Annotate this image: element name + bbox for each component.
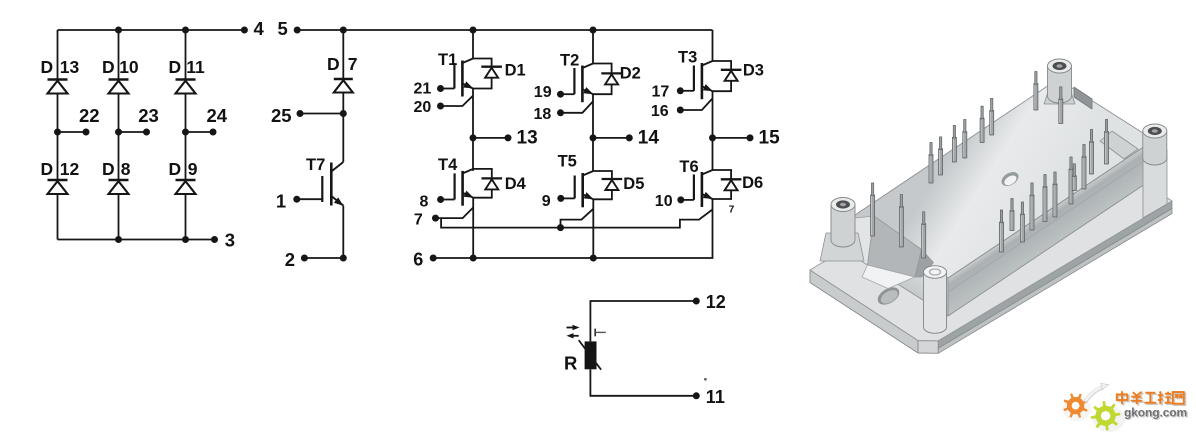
sensor tick mark [595,329,606,337]
terminal 19 (gate of T2) [534,84,564,101]
svg-text:T3: T3 [678,48,697,66]
diode D8 [109,180,129,194]
label D13 [41,57,80,77]
label D8 [102,159,131,179]
svg-text:T2: T2 [560,51,579,69]
node 24 [182,105,228,136]
terminal 25 [271,105,343,126]
transistor T3 [680,61,714,99]
node 13 [470,128,538,149]
wire chopper leg to T7 [342,114,344,163]
svg-text:D: D [327,54,340,74]
terminal 18 (aux emitter of T2) [534,101,594,123]
left corner bushing [820,198,864,262]
label D10 [102,57,139,77]
svg-text:D5: D5 [623,175,644,193]
terminal 9 (gate of T5) [542,193,565,210]
wire phase leg to node 13 [472,89,474,138]
terminal 2 [285,249,308,270]
junction bottom rail leg C [182,236,189,243]
wire T4 emitter to DC- rail [472,198,474,258]
diode D5 (antiparallel) [593,171,622,199]
svg-text:D: D [102,57,115,77]
svg-text:7: 7 [414,211,423,228]
transistor T1 [441,59,475,97]
svg-text:T7: T7 [306,156,325,174]
svg-text:T1: T1 [438,51,457,69]
node 22 [54,105,100,136]
svg-text:22: 22 [79,105,100,126]
watermark logo gkong [1063,383,1125,432]
base oval hole [875,284,903,308]
diode D3 (antiparallel) [713,61,742,91]
svg-text:7: 7 [729,205,735,216]
svg-text:11: 11 [706,387,725,407]
transistor T6 [681,170,715,207]
svg-text:4: 4 [254,18,265,39]
body seam line [948,154,1154,292]
wire node 15 to lower cell [712,138,714,171]
diode D13 [48,80,68,94]
front corner bushing [924,266,947,334]
wire phase leg to node 15 [712,91,714,138]
svg-text:gkong.com: gkong.com [1124,406,1187,420]
body notch cavity [850,216,934,289]
right corner bushing [1100,124,1167,165]
node 14 [590,128,660,149]
wire node 12 [590,301,696,341]
svg-text:5: 5 [278,18,288,39]
wire T6 emitter to DC- rail [433,199,712,258]
svg-text:13: 13 [60,57,80,77]
wire leg T2 collector [592,30,594,64]
terminal 10 (gate of T6) [655,193,685,210]
svg-text:23: 23 [138,105,159,126]
diode D7 [334,79,353,93]
svg-text:7: 7 [348,54,358,74]
svg-text:10: 10 [655,193,673,210]
svg-text:R: R [564,352,577,373]
svg-text:T4: T4 [438,156,458,174]
junction bottom rail leg B [115,236,122,243]
thermal arrows [567,325,580,339]
svg-text:19: 19 [534,84,552,101]
svg-text:D: D [41,159,54,179]
svg-text:14: 14 [638,128,660,149]
svg-text:17: 17 [652,83,670,100]
svg-text:11: 11 [186,57,205,77]
svg-text:D: D [169,159,182,179]
terminal 7 (aux emitter bus) [414,208,473,229]
junction top rail leg B [115,27,122,34]
wire leg T1 collector [472,30,474,59]
terminal 21 (gate of T1) [414,81,445,98]
junction bus at T5 [557,224,564,231]
wire leg T3 collector [712,30,714,61]
diode D11 [176,80,196,94]
svg-text:D1: D1 [505,62,526,80]
wire node 14 to lower cell [592,138,594,171]
svg-text:18: 18 [534,106,552,123]
junction rail leg T1 [470,27,477,34]
svg-text:9: 9 [188,159,198,179]
diode D6 (antiparallel) [713,170,742,199]
junction DC- rail leg T5 [590,255,597,262]
svg-text:21: 21 [414,81,432,98]
speck artifact [704,378,707,381]
diode D4 (antiparallel) [473,169,502,198]
node 23 [115,105,159,136]
terminal 20 (aux emitter of T1) [414,96,474,117]
diode D2 (antiparallel) [593,64,622,95]
svg-text:12: 12 [60,159,80,179]
svg-text:24: 24 [207,105,228,126]
svg-text:20: 20 [414,99,432,116]
terminal 6 [413,249,437,269]
label D7 [327,54,358,74]
junction top rail leg C [182,27,189,34]
svg-text:1: 1 [276,191,286,212]
svg-text:16: 16 [651,103,669,120]
3D module picture [810,59,1172,353]
svg-text:3: 3 [225,230,235,251]
module pins [871,72,1109,259]
wire bridge DC+ rail [343,29,712,31]
wire leg of D13/D12 [57,30,59,240]
module body [852,79,1154,316]
back bushing pedestal [1044,92,1075,104]
svg-text:2: 2 [285,249,295,270]
svg-text:D: D [102,159,115,179]
node 15 [709,128,780,149]
transistor T2 [561,64,595,103]
top surface hole [999,169,1021,189]
terminal 11 [693,387,725,407]
svg-text:D: D [169,57,182,77]
module base plate [810,124,1172,353]
wire node 11 [590,369,696,396]
diode D10 [109,80,129,94]
wire leg of D11/D9 [185,30,187,240]
terminal 12 [693,292,726,312]
step behind back bushing [1074,87,1092,109]
svg-text:8: 8 [121,159,131,179]
svg-text:D2: D2 [620,65,641,83]
terminal 4 [241,18,265,39]
back corner bushing [1048,59,1072,103]
svg-text:T5: T5 [558,153,577,171]
svg-text:T6: T6 [679,158,698,176]
diode D12 [48,180,68,194]
terminal 3 [211,230,235,251]
wire node 5 to bus [297,29,343,31]
watermark text gkong.com [1124,406,1188,421]
transistor T7 [297,162,346,209]
junction rail leg T2 [590,27,597,34]
svg-text:9: 9 [542,193,551,210]
wire top DC+ rail (node 4) [58,29,245,31]
right bushing pedestal [1143,150,1167,218]
terminal 1 (gate of T7) [276,191,300,212]
svg-text:D3: D3 [743,61,764,79]
svg-text:D4: D4 [505,175,527,193]
wire T5 aux emitter [561,209,594,228]
svg-text:D6: D6 [742,174,763,192]
junction DC- rail leg T4 [470,255,477,262]
junction at T7 emitter corner [340,255,347,262]
watermark text 中华工控网 [1117,391,1186,405]
svg-text:13: 13 [517,128,538,149]
terminal 5 [278,18,301,39]
resistor R (thermistor) [579,340,601,370]
label D9 [169,159,198,179]
svg-text:12: 12 [706,292,726,312]
wire leg of D10/D8 [118,30,120,240]
diode D1 (antiparallel) [473,59,502,89]
node 25 junction [340,110,347,117]
wire aux emitter bus [441,210,712,228]
transistor T5 [561,171,595,207]
wire T7 emitter to terminal 2 [304,206,343,259]
terminal 8 (gate of T4) [420,194,445,211]
wire node 13 to lower cell [472,138,474,171]
wire T5 emitter to DC- rail [592,199,594,258]
terminal 17 (gate of T3) [652,83,684,100]
label D11 [169,57,205,77]
svg-text:D: D [41,57,54,77]
wire phase leg to node 14 [592,94,594,138]
svg-text:25: 25 [271,105,292,126]
svg-text:15: 15 [759,128,781,149]
wire bottom DC- rail (node 3) [58,239,215,241]
junction node 5 / chopper leg [340,27,347,34]
transistor T4 [441,169,475,206]
label D12 [41,159,80,179]
wire chopper leg upper [342,30,344,114]
svg-text:6: 6 [413,249,423,269]
svg-text:8: 8 [420,194,429,211]
svg-text:10: 10 [119,57,139,77]
diode D9 [176,180,196,194]
terminal 16 (aux emitter of T3) [651,98,713,120]
